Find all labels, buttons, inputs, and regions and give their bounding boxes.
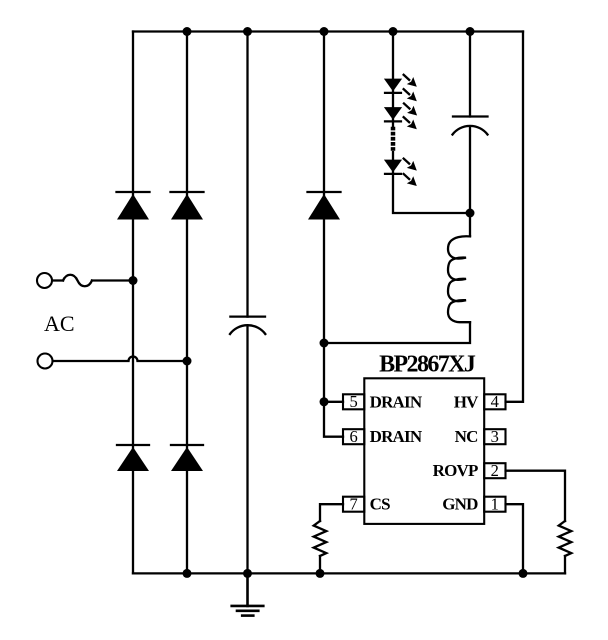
- junction dot top rail 324: [320, 27, 329, 36]
- svg-text:NC: NC: [455, 427, 478, 446]
- junction dot top rail 247: [243, 27, 252, 36]
- wire GND pin down: [506, 504, 523, 573]
- svg-text:ROVP: ROVP: [433, 461, 478, 480]
- svg-text:5: 5: [349, 392, 357, 411]
- wire LED dotted segment: [391, 127, 396, 151]
- inductor L1: [448, 236, 470, 322]
- wire second bridge column: [186, 32, 188, 574]
- AC terminal bottom: [38, 354, 53, 369]
- wire AC live left: [53, 279, 64, 281]
- svg-text:HV: HV: [454, 392, 479, 411]
- wire bulk-cap column lower: [246, 327, 248, 573]
- svg-text:CS: CS: [370, 495, 390, 514]
- LED LED3: [384, 160, 402, 173]
- wire CS to resistor: [320, 504, 343, 521]
- svg-text:DRAIN: DRAIN: [370, 427, 423, 446]
- LED LED2: [384, 107, 402, 120]
- diode D5: [308, 194, 340, 220]
- svg-text:7: 7: [349, 495, 357, 514]
- wire left rail: [132, 32, 134, 574]
- diode D5 bar: [308, 191, 341, 193]
- wire ROVP to resistor: [506, 471, 565, 521]
- pin 3 box: [484, 429, 505, 444]
- wire inductor bottom to drain node: [324, 322, 470, 343]
- IC U1 BP2867XJ body: [364, 378, 484, 524]
- fuse F1: [63, 275, 92, 287]
- junction dot bottom 320: [316, 569, 325, 578]
- LED LED1: [384, 79, 402, 92]
- LED LED2 bar: [385, 120, 401, 122]
- junction dot top rail 470: [466, 27, 475, 36]
- junction dot bottom 187: [183, 569, 192, 578]
- junction dot AC live: [129, 276, 138, 285]
- diode D2: [171, 194, 203, 220]
- pin 2 box: [484, 463, 505, 478]
- junction dot bottom 523: [519, 569, 528, 578]
- junction dot bottom 247: [243, 569, 252, 578]
- pin 5 box: [343, 394, 364, 409]
- wire left resistor bottom: [319, 556, 321, 573]
- resistor R1: [314, 521, 327, 556]
- junction dot top rail 187: [183, 27, 192, 36]
- junction dot drain node: [320, 339, 329, 348]
- pin 6 box: [343, 429, 364, 444]
- wire cap to inductor: [469, 127, 471, 236]
- wire top rail: [133, 30, 523, 32]
- svg-text:3: 3: [491, 427, 499, 446]
- diode D1: [117, 194, 149, 220]
- ground: [232, 573, 264, 615]
- wire right rail HV: [506, 32, 523, 402]
- svg-text:4: 4: [491, 392, 499, 411]
- pin 7 box: [343, 497, 364, 512]
- LED1 arrow a: [403, 74, 417, 87]
- AC terminal top: [37, 273, 52, 288]
- wire pin5 stub: [324, 401, 343, 403]
- pin 1 box: [484, 497, 505, 512]
- wire LED column lower: [393, 152, 470, 213]
- diode D4 bar: [171, 444, 203, 446]
- capacitor C2 curved plate: [453, 126, 488, 135]
- svg-text:1: 1: [491, 495, 499, 514]
- LED3 arrow a: [403, 158, 417, 171]
- wire AC neutral with hop: [53, 357, 187, 362]
- LED LED3 bar: [385, 173, 401, 175]
- junction dot AC neutral: [183, 357, 192, 366]
- junction dot LED cap: [466, 209, 475, 218]
- junction dot top rail 393: [389, 27, 398, 36]
- svg-text:BP2867XJ: BP2867XJ: [379, 352, 476, 378]
- LED2 arrow b: [403, 116, 417, 129]
- capacitor C1 top plate: [230, 315, 265, 317]
- LED2 arrow a: [403, 103, 417, 116]
- diode D4: [171, 447, 203, 471]
- diode D2 bar: [171, 191, 204, 193]
- svg-text:DRAIN: DRAIN: [370, 392, 423, 411]
- diode D3 bar: [117, 444, 149, 446]
- resistor R2: [559, 521, 572, 556]
- diode D3: [117, 447, 149, 471]
- LED1 arrow b: [403, 88, 417, 101]
- wire AC live right: [92, 279, 133, 281]
- svg-text:6: 6: [349, 427, 357, 446]
- wire bulk-cap column upper: [246, 32, 248, 317]
- pin 4 box: [484, 394, 505, 409]
- junction dot pin5: [320, 397, 329, 406]
- svg-text:2: 2: [491, 461, 499, 480]
- LED LED1 bar: [385, 92, 401, 94]
- svg-text:AC: AC: [44, 311, 75, 336]
- capacitor C2 top plate: [453, 115, 488, 117]
- wire right resistor bottom: [564, 556, 566, 573]
- wire output cap column: [469, 32, 471, 117]
- wire LED column upper: [392, 32, 394, 127]
- svg-text:GND: GND: [442, 495, 478, 514]
- LED3 arrow b: [403, 173, 417, 186]
- capacitor C1 curved plate: [230, 325, 265, 334]
- wire drain diode column: [324, 32, 343, 437]
- wire bottom rail: [133, 572, 565, 574]
- diode D1 bar: [117, 191, 150, 193]
